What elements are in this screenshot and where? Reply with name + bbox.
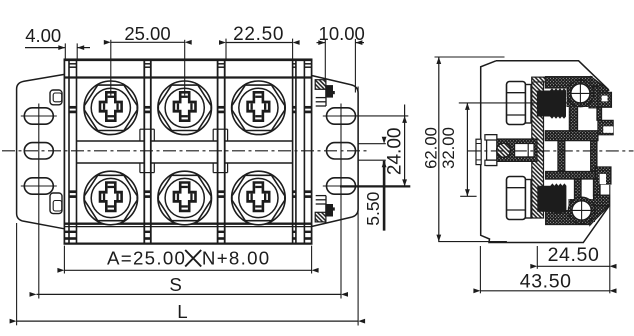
top screw axis line (459, 102, 569, 104)
left ear slot hole 2 (24, 143, 53, 159)
dimension L (10, 223, 366, 325)
right cap foot rungs in bottom rail (304, 231, 311, 240)
separator shoulder collars (140, 129, 154, 172)
svg-text:62.00: 62.00 (421, 127, 440, 169)
svg-text:5.50: 5.50 (363, 191, 383, 225)
right ear slot hole 1 (327, 108, 356, 124)
svg-text:43.50: 43.50 (520, 270, 572, 292)
right ear clamp top hatched wedge (315, 80, 326, 90)
right cap tie rungs (304, 64, 311, 197)
hex screw top washer (526, 85, 532, 124)
middle band lower line (77, 162, 145, 164)
wire clamp strip (497, 139, 537, 161)
right ear edge extension to L dim (357, 87, 359, 326)
right mounting ear (312, 76, 359, 227)
left wall tie rungs (69, 64, 77, 197)
separator 1 foot rungs in bottom rail (144, 231, 151, 240)
hex screw bottom washer (526, 180, 532, 219)
bottom rail top edge (64, 222, 311, 224)
right ear clamp top black block (325, 85, 333, 98)
right wall tie rungs (293, 64, 296, 197)
left edge clip bump (476, 139, 481, 164)
dimension 22.50 (219, 24, 300, 60)
C hook notch (603, 126, 613, 132)
svg-text:N+8.00: N+8.00 (202, 248, 271, 269)
section view outline top/right chamfer (496, 61, 609, 90)
phillips screw bottom 1 (84, 171, 138, 225)
housing hatched structure (545, 77, 613, 226)
hook2 notch (600, 174, 606, 184)
dimension 25.00 (104, 23, 192, 96)
clamp plate (metal, diagonal hatch) (532, 77, 544, 218)
dimension S (30, 274, 349, 297)
phillips screw bottom 2 (158, 171, 212, 225)
svg-text:22.50: 22.50 (233, 24, 284, 45)
bottom rail inner line (64, 226, 311, 228)
top rail bottom edge (64, 76, 311, 78)
circle boss top (567, 86, 593, 107)
separator 2 tie rungs (218, 64, 225, 197)
dimension 24.00 (vertical) (340, 105, 410, 187)
svg-text:L: L (177, 301, 187, 322)
left holes vertical centerline / S extension (38, 104, 40, 299)
bottom screw axis stub (460, 195, 476, 197)
hex screw top thread (537, 88, 566, 119)
svg-text:24.00: 24.00 (385, 128, 406, 176)
svg-text:24.50: 24.50 (548, 244, 600, 266)
phillips screw top 3 (232, 81, 286, 135)
separator 2 lines (217, 60, 219, 245)
phillips screw top 2 (158, 81, 212, 135)
right ear slot hole 2 (327, 143, 356, 159)
hex screw bottom head (507, 177, 526, 220)
dimension 4.00 (25, 25, 90, 60)
right hole 3 crosshair (323, 185, 360, 187)
dimension A=25.00xN+8.00 (57, 246, 318, 274)
left end wall lines (68, 60, 70, 245)
left ear hinge tab bottom (50, 193, 62, 214)
right wall foot rungs in bottom rail (293, 231, 296, 240)
right hole 1 crosshair (323, 115, 360, 117)
separator shoulder collars (213, 129, 227, 172)
separator 1 tie rungs (144, 64, 151, 197)
svg-text:25.00: 25.00 (124, 23, 170, 44)
dimension 62.00 (vertical) (421, 57, 507, 242)
dimension 32.00 (vertical) (439, 103, 470, 196)
dimension 10.00 (317, 23, 365, 93)
hex screw top head (507, 82, 526, 125)
svg-text:32.00: 32.00 (439, 127, 458, 169)
right ear clamp bottom leaf springs (325, 196, 327, 213)
phillips screw bottom 3 (232, 171, 286, 225)
left ear slot hole 3 (24, 178, 53, 194)
svg-text:4.00: 4.00 (25, 25, 61, 46)
right end wall lines (292, 60, 294, 245)
body outer rectangle (64, 59, 311, 243)
front view horizontal centerline (2, 150, 367, 152)
left hole 1 crosshair (21, 115, 57, 117)
separator 1 lines (143, 60, 145, 245)
bottom rail thick bottom edge (64, 242, 313, 244)
hex screw bottom thread (537, 183, 566, 214)
section view outline left/bottom (481, 61, 610, 243)
strip white slot (515, 144, 534, 157)
right end cap line (303, 60, 305, 245)
phillips screw top 1 (84, 81, 138, 135)
left wall foot rungs in bottom rail (64, 231, 76, 240)
left hole 3 crosshair (21, 185, 57, 187)
dimension 24.50 (530, 185, 616, 293)
right ear clamp top leaf springs (325, 89, 327, 106)
separator 2 foot rungs in bottom rail (218, 231, 225, 240)
dimension 43.50 (473, 246, 616, 293)
svg-text:S: S (169, 274, 181, 295)
dimension 5.50 (vertical) (358, 137, 386, 231)
strip screw circle (497, 143, 511, 157)
top rail thick top edge (64, 59, 313, 62)
right ear slot hole 3 (327, 178, 356, 194)
section view centerline (468, 150, 634, 152)
right holes vertical centerline / S extension (340, 104, 342, 299)
left ear slot hole 1 (24, 108, 53, 124)
svg-text:A=25.00: A=25.00 (107, 248, 186, 269)
strip T-end bracket (487, 135, 497, 166)
right ear clamp bottom hatched wedge (315, 212, 326, 222)
left mounting ear (17, 74, 65, 228)
circle boss bottom (569, 199, 596, 222)
tooth1 notch (602, 96, 608, 102)
right ear clamp bottom black block (325, 204, 333, 217)
middle band upper line (77, 140, 145, 142)
left ear hinge tab top (50, 90, 62, 105)
